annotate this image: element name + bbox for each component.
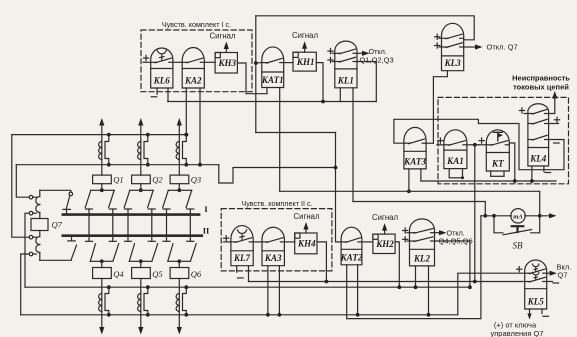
wire KT output down	[509, 143, 515, 181]
wire node A to set II	[256, 132, 336, 134]
disconnector Q5-bus II blade	[141, 244, 158, 261]
wire KA1 output	[467, 144, 479, 146]
junction TA4-busC	[107, 285, 111, 289]
wire KL2 row2 down	[435, 241, 470, 287]
node - KL7	[238, 277, 244, 279]
wire Q7 column bottom	[40, 259, 71, 261]
junction W1a-drop	[473, 280, 477, 284]
junction SB left	[492, 214, 496, 218]
wire KA2 left leg to busA	[184, 88, 188, 137]
junction TA6-busC	[184, 285, 188, 289]
wire Q3 to disconnects	[178, 184, 180, 191]
junction below Q2	[139, 188, 143, 192]
disconnector Q1-bus I blade	[85, 190, 102, 207]
wire KL2 right leg to busD	[427, 266, 431, 317]
relay KL7	[231, 226, 253, 266]
svg-text:KL6: KL6	[153, 76, 171, 86]
circuit breaker Q2	[132, 175, 164, 185]
wire KL4 contact3 minus	[549, 140, 560, 144]
wire KL6 left leg to minus	[156, 88, 158, 94]
wire KL5 left leg plus	[527, 309, 531, 320]
disconnect post left f1	[86, 209, 93, 241]
wire disconnects to Q6	[178, 261, 180, 267]
junction above Q5	[139, 259, 143, 263]
svg-text:КТ: КТ	[491, 159, 504, 169]
junction KH4-rail	[325, 280, 329, 284]
relay KA2	[182, 47, 204, 88]
CT TA5 secondary tap wire	[144, 287, 148, 315]
circuit breaker Q4	[93, 268, 125, 279]
dashed box sensitive set II	[221, 199, 332, 271]
wire KL4 contact2 plus	[549, 117, 560, 123]
wire KAT1 left leg	[266, 88, 268, 94]
node + KL3 row2	[435, 43, 442, 48]
wire KA1 out down to KL5 circuit	[474, 145, 476, 282]
dashed box sensitive set I	[141, 20, 252, 92]
current transformer TA4	[99, 294, 102, 312]
wire KL5 row2 minus	[547, 282, 559, 284]
svg-text:Q7: Q7	[52, 220, 63, 230]
indicating relay KH3	[215, 53, 237, 74]
disconnector Q4-bus I blade	[90, 244, 102, 261]
svg-text:KL5: KL5	[527, 297, 545, 307]
svg-text:КАТ1: КАТ1	[261, 75, 284, 85]
svg-text:KL2: KL2	[413, 253, 431, 263]
node + KT input	[479, 138, 486, 145]
wire busA to X3	[12, 135, 29, 238]
disconnector Q2-bus II blade	[141, 190, 153, 207]
feeder line L6 with arrow	[177, 279, 182, 335]
junction TA2-busB	[146, 163, 150, 167]
wire KL5 close output Q7	[547, 271, 557, 276]
relay KA3	[262, 227, 284, 265]
wire riser to KAT2	[336, 133, 342, 242]
wire KAT3 left leg	[408, 169, 410, 191]
svg-text:KL7: KL7	[233, 253, 251, 263]
junction W1b-SB	[483, 214, 487, 218]
svg-text:Сигнал: Сигнал	[372, 213, 398, 222]
feeder line L4 with arrow	[99, 279, 104, 335]
wire KL7-KA3	[253, 241, 262, 243]
wire KAT2 right leg to busD	[356, 265, 360, 317]
junction KH2-busC	[397, 285, 401, 289]
svg-text:КА3: КА3	[264, 253, 282, 263]
wire KT legs	[491, 171, 504, 176]
relay KL4	[528, 104, 549, 166]
current transformer TA1	[99, 142, 102, 160]
svg-text:KL1: KL1	[337, 75, 354, 85]
relay KAT2	[340, 227, 363, 265]
wire top rail to KL3	[256, 16, 474, 40]
CT TA4 secondary tap wire	[105, 287, 109, 315]
junction TA1-busB	[107, 163, 111, 167]
wire KAT2-KH2	[362, 241, 373, 243]
wire KH2 output down	[395, 242, 399, 287]
wire busB link	[219, 165, 336, 183]
dashed box current-circuit fault	[438, 97, 569, 183]
wire KL1 row2 down	[357, 62, 376, 102]
wire busD riser to KL5	[458, 273, 525, 315]
wire KA1 legs	[449, 169, 464, 180]
svg-text:КАТ2: КАТ2	[340, 252, 363, 262]
label KL5 supply	[491, 321, 544, 337]
svg-text:Чувств. комплект I с.: Чувств. комплект I с.	[162, 20, 231, 29]
wire KL3 leg down	[433, 71, 447, 144]
junction TA6-busD	[184, 313, 188, 317]
disconnector QS7-2 blade	[68, 236, 77, 260]
disconnector QS7-1 blade	[63, 196, 71, 215]
junction TA5-busC	[146, 285, 150, 289]
node + KL3 row1	[435, 34, 442, 39]
relay KL5	[525, 260, 547, 309]
junction above Q4	[100, 259, 104, 263]
svg-text:Откл. Q7: Откл. Q7	[487, 43, 518, 52]
wire Q7 column top	[40, 190, 71, 192]
junction TA4-busD	[107, 313, 111, 317]
CT bus C	[25, 286, 470, 288]
junction KH1-rail	[321, 100, 325, 104]
svg-text:II: II	[203, 226, 210, 236]
svg-text:КАТ3: КАТ3	[403, 156, 426, 166]
svg-text:KL3: KL3	[444, 58, 462, 68]
CT bus B	[16, 164, 219, 166]
wire busB to X1	[16, 165, 29, 198]
label Otkl Q4Q5Q6	[439, 228, 473, 245]
junction TA3-busB	[184, 163, 188, 167]
feeder line L2 with arrow	[138, 118, 143, 175]
signal arrow KH4	[293, 212, 319, 233]
junction KL2-busC	[468, 285, 472, 289]
svg-text:Q2: Q2	[152, 175, 163, 185]
feeder line L3 with arrow	[177, 118, 182, 175]
wire KL7 left leg to minus	[236, 266, 238, 273]
busbar II	[63, 226, 210, 236]
CT TA6 secondary tap wire	[183, 287, 187, 315]
junction TA5-busD	[146, 313, 150, 317]
svg-text:Q4: Q4	[113, 269, 124, 279]
current transformer TA5	[138, 294, 141, 312]
terminal X3	[29, 235, 36, 239]
node + KL1 row2	[328, 57, 335, 62]
svg-text:управления Q7: управления Q7	[491, 329, 544, 337]
disconnector Q2-bus I blade	[124, 190, 141, 207]
circuit breaker Q3	[170, 175, 201, 185]
disconnector Q3-bus I blade	[163, 190, 180, 207]
indicating relay KH1	[293, 52, 316, 71]
svg-text:KL4: KL4	[529, 154, 547, 164]
node + KA1 input	[437, 138, 444, 145]
pushbutton SB	[494, 216, 540, 251]
svg-text:Q3: Q3	[191, 175, 201, 185]
wire Q1 to disconnects	[101, 184, 103, 191]
wire KA2 right leg to busB	[198, 88, 202, 167]
svg-text:mA: mA	[513, 214, 523, 221]
relay KT	[486, 130, 509, 171]
busbar I	[63, 204, 209, 215]
terminal X4	[29, 252, 36, 256]
wire KH4 output down	[317, 242, 326, 282]
junction node A	[254, 61, 258, 65]
current transformer TA3	[176, 142, 179, 160]
current transformer TA6	[176, 294, 179, 312]
disconnector Q1-bus II blade	[102, 190, 114, 207]
junction TA1-busA	[107, 133, 111, 137]
wire node A riser	[255, 16, 257, 133]
junction KT-W2	[513, 179, 517, 183]
wire KAT1-KH1	[284, 62, 293, 64]
wire minus rail W2	[421, 180, 556, 182]
current transformer TA7b	[36, 231, 40, 261]
disconnector Q6-bus II blade	[179, 244, 196, 261]
disconnect post right f1	[109, 209, 116, 241]
wire disconnects to Q4	[101, 261, 103, 267]
node + KL6 input	[143, 55, 151, 62]
disconnect post left f3	[163, 209, 170, 241]
disconnector Q4-bus II blade	[102, 244, 119, 261]
junction KA1 out	[473, 143, 477, 147]
junction above Q6	[177, 259, 181, 263]
wire busC to X2	[25, 213, 29, 287]
svg-text:КН2: КН2	[375, 239, 394, 249]
svg-text:Q7: Q7	[558, 271, 568, 280]
label Otkl Q7	[487, 43, 518, 52]
wire KL7 right leg down	[248, 266, 250, 282]
CT bus A	[12, 134, 187, 136]
junction busB-riser	[334, 166, 338, 170]
disconnect post right f2	[148, 209, 155, 241]
wire KAT3 output	[426, 142, 433, 144]
wire KL6 right leg down	[167, 88, 169, 102]
relay KL1	[335, 41, 357, 88]
svg-text:Чувств. комплект II с.: Чувств. комплект II с.	[241, 199, 312, 208]
wire W1a KAT1 rail	[280, 191, 540, 216]
CT TA2 secondary tap wire	[144, 135, 148, 165]
junction KL4-W2	[530, 179, 534, 183]
circuit breaker Q5	[132, 268, 163, 279]
wire SB row left drop	[480, 216, 482, 319]
relay KL3	[442, 23, 464, 70]
junction TA3-busA	[184, 133, 188, 137]
label Vkl Q7	[557, 263, 572, 280]
wire disconnects to Q5	[140, 261, 142, 267]
svg-text:KA2: KA2	[184, 76, 202, 86]
indicating relay KH4	[295, 233, 317, 254]
relay KL2	[410, 219, 435, 266]
svg-text:КН3: КН3	[217, 58, 236, 68]
wire Q2 to disconnects	[140, 184, 142, 191]
wire KL4 right leg minus	[544, 166, 551, 173]
wire common rail y101	[168, 101, 377, 103]
wire KA3-KH4	[284, 241, 294, 243]
wire KL1 right leg down	[352, 88, 354, 202]
node + KL4 row1	[519, 108, 528, 114]
node + KL2 row1	[403, 228, 410, 233]
disconnector QS7-1 terminal	[69, 192, 73, 196]
wire KH3 output	[237, 63, 267, 94]
disconnector Q3-bus II blade	[179, 190, 191, 207]
wire set II supply rail	[249, 281, 525, 283]
wire R5 rail	[347, 318, 481, 320]
current transformer TA7a	[36, 190, 40, 218]
wire W1b KL1 rail	[353, 202, 485, 216]
terminal X1	[29, 195, 36, 199]
wire KA2-KH3	[204, 61, 215, 63]
svg-text:SB: SB	[513, 241, 524, 251]
svg-text:Q6: Q6	[191, 269, 202, 279]
disconnect post left f2	[125, 209, 132, 241]
wire SB row	[481, 213, 557, 218]
current transformer TA2	[138, 142, 141, 160]
node - KL6	[151, 96, 157, 98]
wire KAT3 right leg	[420, 169, 422, 181]
indicating relay KH2	[373, 234, 395, 253]
wire KAT2 left leg	[346, 265, 348, 319]
wire busD to X4	[21, 254, 30, 315]
svg-text:КН1: КН1	[296, 57, 315, 67]
svg-text:КА1: КА1	[446, 156, 464, 166]
signal arrow KH1	[292, 31, 318, 52]
disconnector Q6-bus I blade	[168, 244, 180, 261]
label Otkl Q1Q2Q3	[360, 47, 394, 64]
terminal X2	[29, 211, 36, 215]
relay KAT3	[403, 127, 426, 169]
svg-text:Сигнал: Сигнал	[209, 32, 235, 41]
node + KL5 row1	[517, 267, 522, 272]
wire KL3 trip output Q7	[464, 44, 483, 49]
svg-text:Q1: Q1	[113, 175, 123, 185]
wire KA3 right leg to busD	[278, 266, 282, 317]
label fault box	[512, 74, 570, 92]
node + KL2 row2	[403, 237, 410, 242]
circuit breaker Q1	[93, 175, 124, 185]
svg-text:Q5: Q5	[152, 269, 162, 279]
relay KL6	[151, 48, 173, 88]
wire KAT1 right leg down	[279, 88, 281, 192]
wire node A to KAT1	[256, 62, 262, 64]
node + KL1 row1	[328, 49, 335, 54]
CT bus D	[21, 314, 458, 316]
relay KAT1	[261, 47, 284, 88]
circuit breaker Q6	[170, 268, 202, 279]
svg-text:Сигнал: Сигнал	[293, 212, 319, 221]
disconnect post right f3	[187, 209, 194, 241]
junction below Q1	[100, 188, 104, 192]
wire KL5 right leg minus	[542, 309, 549, 316]
junction SB right	[538, 214, 542, 218]
wire KAT3 bypass loop	[394, 119, 564, 169]
junction TA2-busA	[146, 133, 150, 137]
svg-text:Неисправность: Неисправность	[512, 74, 570, 83]
junction KAT3-W1	[407, 189, 411, 193]
wire KH1 output down	[316, 63, 323, 102]
wire KL1 trip output	[357, 51, 370, 56]
svg-text:токовых цепей: токовых цепей	[513, 83, 569, 92]
relay KA1	[444, 130, 467, 169]
svg-text:КН4: КН4	[297, 239, 316, 249]
wire KL4 left leg	[531, 166, 533, 181]
node + KL7 input	[223, 236, 231, 242]
wire KL2 left leg to busC	[414, 266, 418, 289]
CT TA3 secondary tap wire	[183, 135, 187, 165]
svg-text:Сигнал: Сигнал	[292, 31, 318, 40]
circuit breaker Q7	[31, 219, 63, 231]
feeder line L5 with arrow	[138, 279, 143, 335]
disconnector Q5-bus I blade	[129, 244, 141, 261]
junction below Q3	[177, 188, 181, 192]
feeder line L1 with arrow	[99, 118, 104, 175]
wire KL1 left leg	[339, 88, 341, 102]
wire KL6-KA2	[173, 61, 182, 63]
CT TA1 secondary tap wire	[105, 135, 109, 165]
signal arrow KH3	[209, 32, 235, 53]
wire KA3 left leg to busD	[266, 266, 270, 317]
milliammeter mA	[511, 209, 525, 223]
wire KL4 contact1 to fault signal	[549, 91, 558, 114]
signal arrow KH2	[372, 213, 398, 234]
wire KL2 trip output	[435, 230, 447, 235]
